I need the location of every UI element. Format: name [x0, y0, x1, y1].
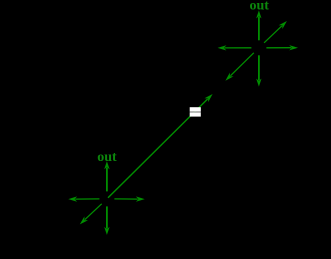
node V2 (lower vortex): up arrow: [104, 161, 109, 191]
node V1 (upper vortex): down arrow: [256, 55, 261, 86]
svg-text:out: out: [249, 0, 269, 13]
node V1 (upper vortex): right arrow: [266, 45, 298, 50]
node V2 (lower vortex): down arrow: [104, 206, 109, 235]
node V1 (upper vortex): left arrow: [218, 45, 252, 50]
node V2 (lower vortex): left arrow: [68, 196, 99, 201]
break symbol: lower white bar: [190, 113, 201, 117]
svg-text:out: out: [97, 150, 117, 165]
node V1 (upper vortex): down-left arrow: [225, 53, 253, 81]
wire: long diagonal arrow from node V2 toward node V1: [108, 94, 213, 198]
break symbol: upper white bar: [190, 107, 201, 111]
break symbol: gap divider: [190, 111, 201, 113]
node V2 (lower vortex): right arrow: [114, 196, 144, 201]
node V1 (upper vortex): up arrow: [256, 10, 261, 40]
node V1 (upper vortex): up-right arrow: [264, 21, 287, 43]
node V2 (lower vortex): down-left arrow: [80, 204, 102, 225]
